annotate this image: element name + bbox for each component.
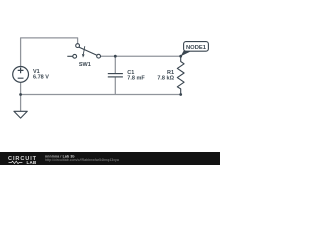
switch arrow head bbox=[82, 54, 85, 58]
svg-text:SW1: SW1 bbox=[79, 62, 91, 68]
wire V1 bottom to ground junction bbox=[20, 82, 22, 94]
ground bbox=[14, 111, 27, 118]
voltage source V1 bbox=[13, 67, 29, 83]
capacitor C1 bbox=[108, 74, 123, 77]
switch SW1 bbox=[67, 44, 100, 59]
node label NODE1 bbox=[184, 42, 209, 52]
svg-text:7.8 mF: 7.8 mF bbox=[127, 75, 145, 81]
junction dot ground/V1 bbox=[19, 93, 22, 96]
svg-text:http://circuitlab.com/c/fRabbn: http://circuitlab.com/c/fRabbnwfar54bnq4… bbox=[45, 158, 119, 162]
svg-text:LAB: LAB bbox=[27, 160, 37, 165]
wire bottom rail bbox=[21, 94, 181, 96]
watermark logo zigzag bbox=[9, 161, 23, 163]
junction dot C1 top bbox=[114, 55, 117, 58]
wire C1 top lead bbox=[114, 56, 116, 73]
svg-text:NODE1: NODE1 bbox=[186, 45, 207, 51]
wire C1 bottom lead bbox=[114, 78, 116, 95]
wire ground stub bbox=[20, 95, 22, 112]
wire switch to right rail bbox=[101, 55, 181, 57]
wire V1 top to switch (top rail) bbox=[21, 38, 78, 67]
resistor R1 bbox=[177, 56, 184, 94]
svg-text:7.8 kΩ: 7.8 kΩ bbox=[157, 75, 174, 81]
watermark bar bbox=[0, 152, 220, 165]
svg-text:6.78 V: 6.78 V bbox=[33, 75, 49, 81]
junction dot R1 top / node A bbox=[179, 55, 182, 58]
node label NODE1 pointer bbox=[181, 49, 191, 56]
junction dot R1 bottom bbox=[179, 93, 182, 96]
